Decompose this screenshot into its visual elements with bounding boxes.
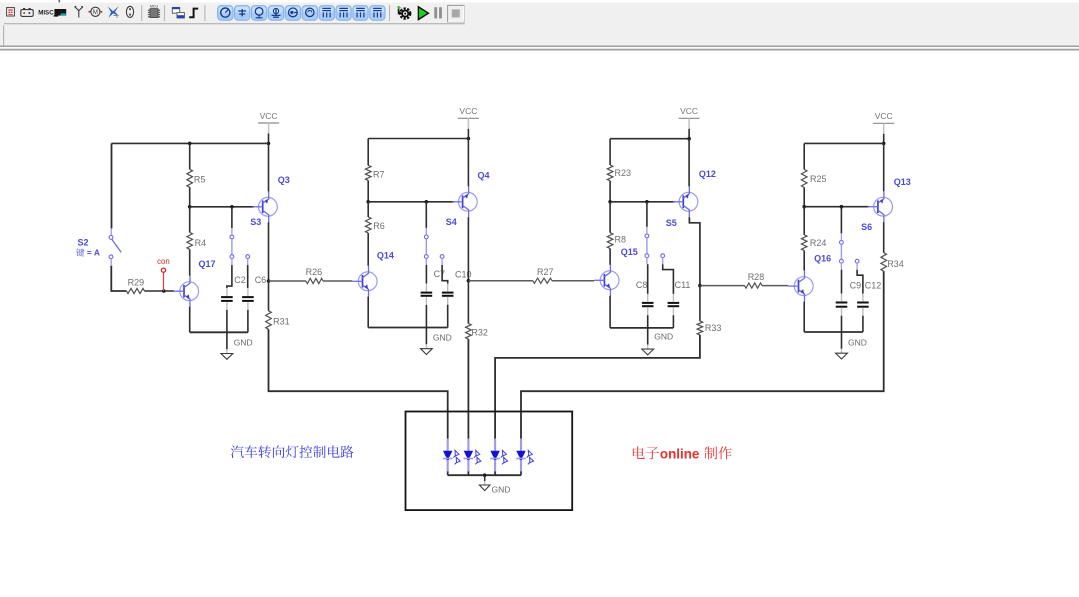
ground symbol (stage 1)	[226, 332, 228, 349]
wire stage4 output run to LED4	[521, 271, 884, 439]
svg-text:GND: GND	[433, 332, 452, 342]
capacitor C9	[836, 294, 848, 316]
svg-text:C8: C8	[636, 280, 648, 290]
icon: xspice bird button	[108, 6, 120, 18]
wire C6 to bottom rail	[247, 310, 249, 332]
wire con marker stem	[163, 272, 165, 291]
svg-text:S2: S2	[78, 237, 89, 247]
node base rail left junction (stage 3)	[608, 200, 612, 204]
wire R6 to Q14 collector	[367, 233, 369, 266]
resistor R26	[306, 278, 323, 283]
wire base rail (stage 1)	[190, 206, 254, 208]
svg-text:C12: C12	[865, 280, 882, 290]
svg-text:R8: R8	[615, 234, 627, 244]
icon: motor button	[88, 7, 102, 16]
wire top rail to R5	[189, 143, 191, 169]
pause button	[434, 7, 442, 18]
wire base rail to R8	[609, 202, 611, 233]
switch S4	[424, 235, 444, 265]
icon: display button	[54, 9, 67, 17]
wire R25 to base rail	[803, 187, 805, 206]
svg-text:C2: C2	[234, 275, 246, 285]
capacitor C6	[242, 288, 254, 310]
svg-text:R33: R33	[705, 323, 722, 333]
svg-text:C9: C9	[850, 280, 862, 290]
wire R24 to Q16 collector	[803, 251, 805, 271]
wire top rail (stage 1)	[112, 142, 269, 144]
ground symbol (stage 4)	[841, 332, 843, 349]
svg-text:Q17: Q17	[199, 259, 216, 269]
instrument button: multimeter	[218, 6, 233, 21]
svg-text:R4: R4	[195, 238, 207, 248]
wire R28 to Q16 base	[762, 285, 788, 287]
icon: antenna button	[75, 7, 83, 18]
wire C7 to bottom rail	[425, 305, 427, 328]
instrument button: word generator	[319, 6, 334, 21]
icon: diode/DIP component button	[7, 8, 15, 16]
icon: battery/misc source button	[21, 8, 33, 16]
wire switch throw-2 to C6	[247, 265, 249, 288]
LED LED4	[516, 439, 533, 475]
wire output node to R27	[468, 280, 532, 282]
svg-text:Q16: Q16	[814, 253, 831, 263]
wire C10 to bottom rail	[447, 305, 449, 328]
capacitor C7	[421, 284, 433, 305]
wire stage2 output run to LED2	[467, 339, 469, 439]
wire VCC stub to top rail (stage 1)	[268, 134, 270, 144]
svg-text:GND: GND	[654, 331, 673, 341]
capacitor C2	[221, 288, 233, 310]
wire R5 to base rail	[189, 187, 191, 207]
svg-text:S5: S5	[666, 218, 677, 228]
icon: step waveform button	[189, 9, 198, 18]
wire Q15 emitter to bottom rail	[609, 296, 611, 328]
svg-text:M: M	[93, 10, 98, 16]
svg-text:MCU: MCU	[150, 4, 158, 8]
icon: MCU chip button	[148, 4, 160, 17]
wire C12 to bottom rail	[862, 316, 864, 332]
wire output node to R31	[268, 281, 270, 311]
node VCC junction (stage 4)	[882, 142, 886, 146]
node VCC junction (stage 2)	[467, 137, 471, 141]
transistor Q4 (PNP-style arrow up)	[452, 186, 477, 218]
node switch tap junction (stage 2)	[425, 200, 429, 204]
LED LED3	[490, 439, 507, 475]
wire VCC stub to top rail (stage 3)	[688, 129, 690, 139]
wire top rail to R25	[803, 143, 805, 169]
node base rail left junction (stage 4)	[802, 205, 806, 209]
instrument button: distortion analyzer	[302, 6, 317, 21]
wire switch throw-1 to C9	[841, 270, 843, 294]
svg-text:C7: C7	[434, 269, 446, 279]
wire R27 to Q15 base	[552, 280, 594, 282]
svg-text:R25: R25	[810, 174, 827, 184]
node stage2 output junction	[467, 279, 471, 283]
wire R26 to Q14 base	[323, 280, 352, 282]
svg-text:MISC: MISC	[38, 9, 54, 16]
wire top rail to R23	[609, 139, 611, 165]
wire base rail (stage 4)	[804, 206, 869, 208]
svg-text:R23: R23	[615, 168, 632, 178]
svg-text:R6: R6	[373, 221, 385, 231]
wire bottom rail (stage 4)	[804, 331, 863, 333]
svg-text:S3: S3	[250, 217, 261, 227]
wire bottom rail (stage 1)	[190, 331, 248, 333]
ground symbol (stage 2)	[425, 328, 427, 345]
wire switch common (stage 4)	[840, 207, 842, 234]
wire C8 to bottom rail	[647, 315, 649, 328]
svg-text:R5: R5	[194, 174, 206, 184]
svg-text:R24: R24	[810, 238, 827, 248]
instrument button: oscilloscope	[268, 6, 283, 21]
wire Q4 collector to top rail	[467, 139, 469, 187]
svg-text:R26: R26	[306, 267, 323, 277]
node top rail / R5 junction	[188, 142, 192, 146]
node VCC junction (stage 3)	[687, 137, 691, 141]
transistor Q16 (NPN)	[788, 270, 813, 302]
node switch tap junction (stage 3)	[645, 200, 649, 204]
wire top rail (stage 3)	[610, 138, 689, 140]
ground symbol (stage 3)	[647, 328, 649, 345]
switch S6	[840, 241, 859, 270]
resistor R32	[466, 323, 472, 339]
canvas top sunken edge	[0, 45, 1079, 47]
svg-text:R31: R31	[273, 316, 290, 326]
transistor Q12 (PNP-style arrow up)	[673, 186, 698, 218]
resistor R27	[533, 278, 552, 283]
wire base rail to R4	[189, 207, 191, 233]
wire switch throw-2 to C12	[857, 270, 863, 294]
icon: electromechanical button	[126, 6, 133, 17]
wire R4 to Q17 collector	[189, 249, 191, 275]
switch S3	[230, 235, 250, 265]
instrument button: network analyzer	[370, 6, 385, 21]
node switch tap junction (stage 4)	[840, 205, 844, 209]
wire VCC stub to top rail (stage 2)	[467, 129, 469, 139]
resistor R23	[607, 165, 613, 181]
node stage1 output junction	[267, 279, 271, 283]
svg-text:VCC: VCC	[459, 106, 477, 116]
wire C9 to bottom rail	[841, 316, 843, 332]
icon: hierarchy windows button	[172, 7, 184, 18]
wire R29 to Q17 base	[145, 290, 174, 292]
switch S5	[645, 234, 665, 264]
wire switch throw-1 to C2	[227, 265, 232, 288]
wire top rail (stage 4)	[804, 142, 884, 144]
svg-text:Q15: Q15	[621, 247, 638, 257]
capacitor C11	[668, 294, 680, 315]
wire R7 to base rail	[367, 180, 369, 201]
svg-text:VCC: VCC	[875, 111, 893, 121]
node stage3 output junction	[698, 284, 702, 288]
wire Q12 emitter jog to output column	[689, 217, 700, 285]
resistor R24	[801, 235, 807, 251]
resistor R5	[187, 169, 193, 187]
wire Q17 emitter to bottom rail	[189, 307, 191, 333]
resistor R4	[187, 232, 193, 249]
wire base rail to R6	[367, 202, 369, 217]
wire LED rail to ground	[484, 475, 486, 481]
toolbar separator	[389, 5, 391, 21]
ground symbol (LED box)	[484, 481, 486, 485]
node base rail left junction (stage 2)	[366, 200, 370, 204]
titlebar remnant tick	[59, 0, 61, 2]
resistor R8	[607, 233, 613, 249]
toolbar separator	[141, 5, 143, 21]
svg-text:online: online	[660, 446, 699, 461]
wire switch throw-2 to C10	[442, 265, 448, 284]
svg-text:Q4: Q4	[478, 171, 490, 181]
LED enclosure box	[406, 412, 573, 511]
switch S2	[109, 236, 121, 259]
svg-text:VCC: VCC	[680, 106, 698, 116]
caption: blue circuit title	[231, 445, 354, 458]
svg-text:VCC: VCC	[260, 111, 278, 121]
wire stage1 output run to LED1	[269, 329, 448, 439]
node switch tap junction (stage 1)	[230, 205, 234, 209]
capacitor C8	[642, 294, 654, 315]
node VCC junction (stage 1)	[267, 142, 271, 146]
resistor R6	[365, 217, 371, 233]
svg-text:R29: R29	[128, 278, 145, 288]
LED LED2	[464, 439, 481, 475]
capacitor C12	[857, 294, 869, 316]
wire switch throw-2 to C11	[663, 264, 674, 294]
svg-text:Q13: Q13	[894, 177, 911, 187]
wire output node to R33	[699, 286, 701, 321]
wire switch common (stage 1)	[231, 207, 233, 228]
wire switch common (stage 3)	[646, 202, 648, 227]
wire S2 to R29	[110, 259, 112, 266]
wire base rail (stage 3)	[610, 201, 675, 203]
svg-text:Q12: Q12	[699, 169, 716, 179]
node base rail left junction (stage 1)	[188, 205, 192, 209]
resistor R33	[697, 321, 703, 335]
node LED rail center junction	[483, 473, 487, 477]
wire output node to R26	[269, 280, 307, 282]
toolbar row border	[4, 23, 465, 25]
svg-text:Q3: Q3	[278, 175, 290, 185]
svg-text:Q14: Q14	[377, 251, 394, 261]
toolbar separator	[204, 5, 206, 21]
wire Q14 emitter to bottom rail	[367, 297, 369, 328]
LED LED1	[443, 439, 460, 475]
transistor Q3 (PNP-style arrow up)	[252, 191, 277, 223]
wire LED common rail	[448, 474, 521, 476]
wire top rail to R7	[367, 139, 369, 166]
node con junction	[162, 289, 166, 293]
transistor Q14 (NPN)	[352, 266, 377, 298]
svg-text:C11: C11	[675, 280, 691, 290]
wire top rail (stage 2)	[368, 138, 468, 140]
svg-text:S6: S6	[861, 222, 872, 232]
wire Q13 collector to top rail	[883, 143, 885, 191]
svg-text:GND: GND	[234, 338, 253, 348]
svg-text:GND: GND	[848, 338, 867, 348]
transistor Q17 (NPN)	[174, 275, 199, 307]
wire base rail to R24	[803, 207, 805, 235]
svg-text:R34: R34	[887, 259, 904, 269]
svg-text:con: con	[157, 257, 170, 266]
wire C11 to bottom rail	[672, 315, 674, 328]
resistor R7	[365, 165, 371, 180]
svg-text:R28: R28	[748, 272, 765, 282]
transistor Q15 (NPN)	[594, 265, 619, 297]
svg-text:GND: GND	[492, 485, 511, 495]
instrument button: logic converter	[353, 6, 368, 21]
wire Q3 emitter to output node	[268, 222, 270, 281]
svg-text:C6: C6	[255, 275, 267, 285]
svg-text:S4: S4	[446, 217, 457, 227]
wire top rail to S2	[111, 143, 113, 228]
wire R23 to base rail	[609, 181, 611, 202]
toolbar left separator	[3, 26, 5, 46]
resistor R29	[127, 288, 145, 293]
toolbar separator	[164, 5, 166, 21]
wire switch common (stage 2)	[425, 202, 427, 228]
instrument button: function generator	[235, 6, 250, 21]
wire VCC stub to top rail (stage 4)	[883, 134, 885, 144]
label key = A	[76, 248, 84, 256]
wire output node to R28	[700, 285, 745, 287]
stop button (pressed)	[448, 5, 464, 21]
instrument button: bode plotter	[285, 6, 300, 21]
wire stage3 output run to LED3	[495, 335, 700, 439]
transistor Q13 (PNP-style arrow up)	[868, 191, 893, 223]
wire Q3 collector to top rail	[268, 143, 270, 191]
svg-text:R32: R32	[471, 327, 488, 337]
instrument button: logic analyzer	[336, 6, 351, 21]
run/settings gear button	[398, 6, 410, 18]
resistor R31	[266, 311, 272, 330]
wire Q4 emitter to output node	[467, 217, 469, 280]
run/play button	[418, 7, 428, 20]
resistor R25	[801, 169, 807, 187]
resistor R34	[881, 253, 887, 271]
caption: red credit text	[633, 446, 659, 459]
node con marker	[161, 268, 165, 272]
svg-text:R7: R7	[373, 169, 385, 179]
instrument button: wattmeter	[251, 6, 266, 21]
svg-text:= A: = A	[85, 248, 100, 258]
wire Q13 emitter to R34	[883, 222, 885, 253]
wire bottom rail (stage 2)	[368, 327, 448, 329]
wire output node to R32	[467, 281, 469, 324]
resistor R28	[745, 283, 763, 288]
wire base rail (stage 2)	[368, 201, 454, 203]
wire Q12 collector to top rail	[688, 139, 690, 187]
capacitor C10	[442, 284, 454, 305]
svg-text:R27: R27	[537, 267, 554, 277]
wire C2 to bottom rail	[226, 310, 228, 332]
wire switch throw-1 to C8	[647, 264, 649, 294]
wire switch throw-1 to C7	[425, 265, 427, 284]
wire R8 to Q15 collector	[609, 249, 611, 265]
wire Q16 emitter to bottom rail	[803, 302, 805, 332]
wire bottom rail (stage 3)	[610, 327, 673, 329]
